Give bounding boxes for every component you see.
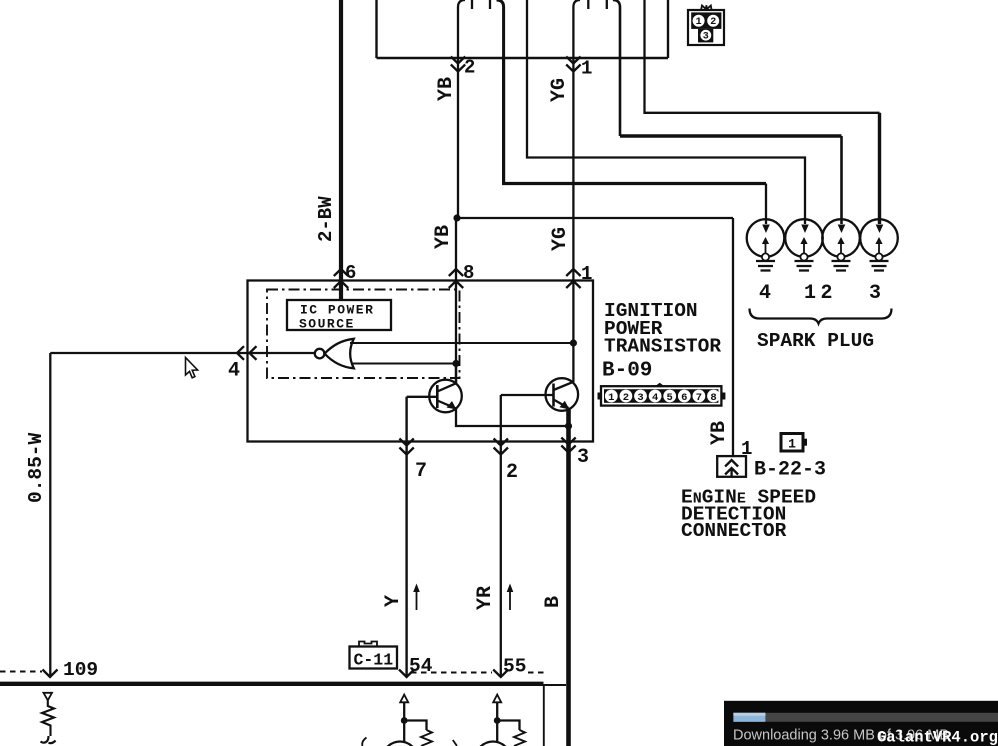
wire 0.85-W vertical bbox=[49, 353, 51, 677]
ECU output triangle 54 bbox=[400, 695, 408, 703]
hook below resistor bbox=[41, 736, 56, 743]
svg-text:YG: YG bbox=[549, 227, 572, 251]
ECU box top edge (thick) bbox=[0, 682, 544, 686]
svg-text:2-BW: 2-BW bbox=[315, 196, 337, 242]
svg-text:54: 54 bbox=[409, 655, 433, 677]
svg-text:7: 7 bbox=[696, 392, 702, 404]
connector C-11 bbox=[350, 642, 398, 670]
svg-text:C-11: C-11 bbox=[354, 651, 394, 670]
arrow pin 3 bbox=[561, 438, 575, 453]
svg-text:YR: YR bbox=[474, 586, 497, 610]
svg-text:TRANSISTOR: TRANSISTOR bbox=[604, 336, 721, 358]
junction 54 bbox=[401, 717, 408, 724]
svg-text:GalantVR4.org: GalantVR4.org bbox=[877, 729, 998, 746]
svg-text:109: 109 bbox=[63, 659, 98, 681]
svg-text:8: 8 bbox=[710, 392, 716, 404]
junction 55 bbox=[494, 717, 501, 724]
arrowhead into spark plug 4 bbox=[876, 225, 884, 234]
short dash right of 55 bbox=[528, 672, 545, 674]
driver transistor circle 54 (partial) bbox=[383, 742, 418, 746]
chevron 55 crossing bbox=[493, 670, 508, 678]
ECU boundary dashed line left bbox=[0, 671, 42, 673]
connector face view (coil connector 1-2-3) bbox=[688, 5, 724, 45]
power transistor unit box B-09 bbox=[248, 281, 594, 442]
chevron 109 crossing bbox=[43, 670, 58, 678]
wire engine speed connector drop bbox=[732, 218, 734, 456]
mouse cursor bbox=[186, 358, 198, 378]
ECU input triangle 109 bbox=[44, 693, 53, 701]
arrow pin 6 bbox=[334, 269, 348, 288]
wire cyl3: coil lead x=644.5 to spark plug 4 bbox=[645, 58, 880, 113]
coil 2 terminal right wall (high tension) bbox=[613, 0, 620, 58]
svg-text:1: 1 bbox=[696, 17, 702, 28]
driver transistor circle 55 (partial) bbox=[476, 742, 511, 746]
svg-text:B-09: B-09 bbox=[602, 360, 652, 383]
wire pin 7 (Y) bbox=[405, 397, 407, 677]
junction YB bbox=[453, 214, 460, 221]
svg-text:7: 7 bbox=[415, 460, 427, 483]
gate input lower wire bbox=[351, 363, 456, 365]
svg-text:0.85-W: 0.85-W bbox=[25, 432, 47, 503]
coil 1 terminal left wall bbox=[458, 0, 465, 58]
svg-text:SOURCE: SOURCE bbox=[299, 317, 355, 332]
spark plug 1 bbox=[747, 219, 785, 270]
svg-text:2: 2 bbox=[821, 282, 833, 305]
tick fragment bbox=[453, 740, 457, 746]
connector icon B-22-3 (face view) bbox=[781, 434, 807, 452]
ECU boundary dashed line mid bbox=[411, 672, 492, 674]
arrow pin 2 bbox=[494, 439, 508, 455]
svg-text:2: 2 bbox=[506, 461, 518, 484]
direction arrow YR bbox=[509, 588, 511, 610]
coil pass-through lead x=644.5 bbox=[643, 0, 645, 58]
download overlay bar bbox=[724, 701, 998, 746]
direction arrow Y bbox=[416, 588, 418, 610]
svg-text:6: 6 bbox=[681, 392, 687, 404]
wire 2-BW (pin 6) bbox=[339, 0, 343, 300]
svg-text:2: 2 bbox=[464, 57, 475, 79]
arrow coil pin 1 bbox=[566, 57, 580, 72]
svg-text:IC POWER: IC POWER bbox=[300, 303, 374, 318]
coil 2 pin tick b bbox=[606, 0, 608, 9]
spark plug 3 bbox=[822, 219, 860, 270]
resistor R (109 pulldown) bbox=[42, 700, 54, 736]
wire 55 inside ECU bbox=[496, 702, 498, 742]
svg-text:YB: YB bbox=[435, 77, 458, 101]
svg-text:3: 3 bbox=[637, 392, 643, 404]
coil 1 pin tick b bbox=[489, 0, 491, 9]
arrow pin 1 (transistor box top) bbox=[566, 269, 580, 288]
svg-text:B-22-3: B-22-3 bbox=[754, 459, 826, 482]
coil 2 terminal left wall bbox=[573, 0, 580, 58]
NOR gate U1 bbox=[315, 339, 354, 369]
svg-text:1: 1 bbox=[804, 282, 816, 305]
wire 54 inside ECU bbox=[403, 702, 405, 742]
wire coil pin1 to YG (x=573.4) bbox=[572, 58, 574, 343]
arrow pin 8 bbox=[449, 269, 463, 288]
arrow pin 7 bbox=[399, 439, 413, 455]
wire high tension cyl2: coil2 right wall to spark plug 3 bbox=[619, 58, 622, 136]
svg-text:4: 4 bbox=[759, 282, 771, 305]
svg-text:1: 1 bbox=[608, 392, 614, 404]
engine speed detection connector terminal box bbox=[717, 456, 746, 477]
junction gate lower input on pin8 line bbox=[452, 360, 459, 367]
svg-text:CONNECTOR: CONNECTOR bbox=[681, 520, 787, 542]
svg-text:4: 4 bbox=[228, 360, 240, 383]
coil 1 pin tick a bbox=[471, 0, 473, 9]
IC section dash-dot box bbox=[267, 290, 460, 379]
svg-text:2: 2 bbox=[710, 17, 716, 28]
ECU inner vertical line bbox=[543, 686, 545, 746]
junction Q2 emitter / pin3 bbox=[565, 422, 572, 429]
svg-text:1: 1 bbox=[581, 263, 592, 285]
arrowhead into spark plug 3 bbox=[838, 225, 846, 234]
svg-text:YG: YG bbox=[548, 78, 571, 102]
svg-text:5: 5 bbox=[667, 392, 673, 404]
spark plug 2 bbox=[785, 219, 823, 270]
wire cyl1: coil lead x=527 to spark plug 2 bbox=[527, 58, 805, 224]
svg-text:1: 1 bbox=[581, 58, 592, 80]
svg-text:2: 2 bbox=[623, 392, 629, 404]
brace spark plug group bbox=[750, 309, 892, 324]
svg-text:55: 55 bbox=[503, 656, 526, 678]
svg-text:1: 1 bbox=[788, 437, 796, 452]
wire pin 2 (YR) bbox=[500, 395, 502, 677]
IC POWER SOURCE label box bbox=[287, 300, 391, 330]
branch to resistor 55 bbox=[497, 721, 519, 731]
arrow coil pin 2 bbox=[451, 57, 465, 72]
ignition coil box B-08 bbox=[377, 0, 669, 58]
arrowhead into spark plug 2 bbox=[801, 225, 809, 234]
svg-text:B: B bbox=[542, 596, 565, 608]
arrowhead into spark plug 1 bbox=[762, 225, 770, 234]
ECU top edge thin segment to B wire bbox=[544, 684, 567, 686]
wire pin 3 (B) thick bbox=[566, 408, 571, 746]
wire Q1 collector bbox=[455, 364, 457, 384]
spark plug 4 bbox=[860, 219, 898, 270]
chevron 54 crossing bbox=[399, 670, 414, 678]
svg-text:3: 3 bbox=[577, 446, 589, 469]
coil 2 pin tick a bbox=[587, 0, 589, 9]
branch to resistor 54 bbox=[404, 721, 426, 731]
connector strip B-09 pins 1-8 bbox=[598, 383, 726, 406]
ECU output triangle 55 bbox=[493, 695, 501, 703]
svg-text:SPARK PLUG: SPARK PLUG bbox=[757, 330, 874, 352]
svg-text:Y: Y bbox=[382, 595, 405, 607]
wire YB horizontal to engine speed connector bbox=[457, 217, 733, 219]
small arc fragment left bbox=[362, 738, 366, 746]
svg-text:3: 3 bbox=[869, 282, 881, 305]
wire pin 8 (YB) into transistor bbox=[455, 218, 457, 384]
wire Q2 collector (YG down) bbox=[572, 343, 574, 382]
svg-text:4: 4 bbox=[652, 392, 658, 404]
gate input upper wire bbox=[350, 342, 573, 344]
svg-text:YB: YB bbox=[708, 421, 731, 445]
junction gate upper input on YG line bbox=[570, 339, 577, 346]
coil 1 terminal right wall (high tension) bbox=[497, 0, 504, 58]
wire gate output (pin 4) bbox=[50, 352, 315, 354]
wire Q1 emitter down and right bbox=[456, 409, 569, 427]
transistor Q1 bbox=[407, 380, 462, 413]
arrow pin 4 bbox=[237, 346, 257, 360]
svg-text:YB: YB bbox=[432, 225, 455, 249]
resistor 54 bbox=[421, 730, 432, 746]
svg-text:3: 3 bbox=[703, 32, 709, 43]
resistor 55 bbox=[514, 730, 525, 746]
coil pass-through lead x=527 bbox=[526, 0, 528, 58]
wire coil pin2 to YB (x=457.5) bbox=[457, 58, 459, 218]
wire drop to spark plug 1 bbox=[765, 184, 767, 225]
transistor Q2 bbox=[501, 378, 578, 411]
wire high tension cyl4: coil1 right wall to spark plug 1 bbox=[504, 58, 766, 184]
